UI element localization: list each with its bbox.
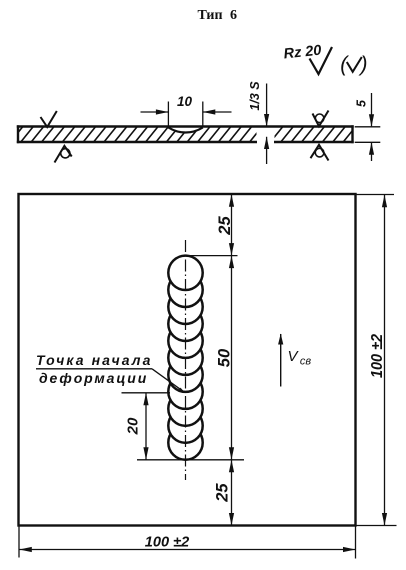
svg-text:100 ±2: 100 ±2 bbox=[369, 334, 386, 378]
svg-text:10: 10 bbox=[177, 94, 193, 109]
svg-text:1/3 S: 1/3 S bbox=[248, 81, 262, 111]
svg-text:6: 6 bbox=[230, 8, 237, 23]
svg-text:Тип: Тип bbox=[197, 8, 222, 23]
svg-text:св: св bbox=[300, 356, 312, 368]
svg-text:Точка начала: Точка начала bbox=[36, 352, 153, 368]
svg-text:100 ±2: 100 ±2 bbox=[145, 534, 190, 551]
svg-text:25: 25 bbox=[216, 216, 234, 236]
svg-text:5: 5 bbox=[355, 99, 369, 107]
svg-text:деформации: деформации bbox=[39, 370, 148, 386]
svg-text:50: 50 bbox=[216, 348, 234, 367]
svg-text:25: 25 bbox=[214, 483, 232, 503]
svg-text:20: 20 bbox=[125, 417, 142, 435]
